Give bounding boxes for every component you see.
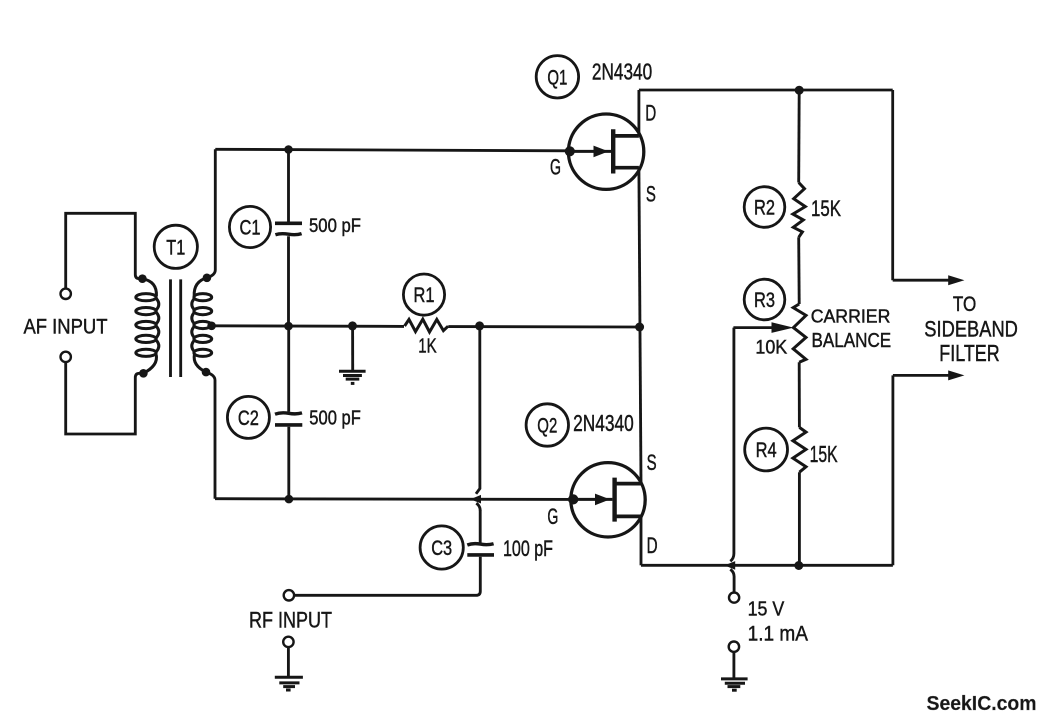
wire gate line top [215, 149, 571, 151]
junction ground tap [348, 321, 357, 330]
junction bottom rail R4 [794, 561, 803, 570]
svg-text:R3: R3 [754, 289, 775, 312]
svg-text:BALANCE: BALANCE [812, 329, 892, 352]
svg-text:R2: R2 [754, 197, 775, 220]
junction primary top [138, 274, 147, 283]
terminal AF input top [60, 289, 70, 299]
wire Q2 drain down [640, 516, 643, 565]
svg-text:R4: R4 [756, 439, 777, 462]
arrow at bottom rail junction [725, 561, 736, 570]
arrow output lower [948, 370, 964, 380]
resistor label R1 [403, 274, 444, 315]
svg-text:15 V: 15 V [748, 598, 785, 621]
terminal supply ground [729, 642, 739, 652]
ground RF input [275, 677, 303, 690]
terminal 15V [729, 593, 739, 603]
svg-text:D: D [647, 533, 658, 558]
junction secondary bottom [202, 368, 211, 377]
resistor R4 [793, 427, 806, 472]
arrow at lower rail junction [470, 495, 481, 504]
wire secondary top to gate line [207, 149, 215, 277]
wire ground stub [351, 326, 354, 371]
svg-text:SIDEBAND: SIDEBAND [924, 317, 1018, 342]
svg-text:CARRIER: CARRIER [811, 307, 891, 327]
svg-text:500 pF: 500 pF [309, 408, 361, 430]
svg-text:SeekIC.com: SeekIC.com [927, 693, 1037, 715]
wire AF input upper loop [66, 213, 143, 288]
svg-text:TO: TO [953, 293, 976, 316]
svg-text:Q2: Q2 [537, 415, 557, 438]
resistor R2 [793, 183, 805, 238]
capacitor label C3 [420, 526, 463, 569]
svg-text:R1: R1 [414, 284, 435, 307]
wire R4 bottom [798, 472, 801, 565]
junction S node [635, 323, 644, 332]
svg-text:C2: C2 [238, 407, 259, 430]
junction top rail R2 [795, 86, 804, 95]
svg-text:100 pF: 100 pF [503, 536, 553, 561]
wire right bracket upper [893, 90, 950, 280]
svg-text:G: G [547, 504, 558, 529]
wire Q1 drain up [637, 90, 640, 136]
resistor R1 [405, 319, 449, 332]
transistor Q2 [568, 463, 645, 537]
transformer T1 secondary winding [192, 278, 212, 372]
svg-text:Q1: Q1 [547, 66, 567, 89]
junction C1 top on gate line [284, 145, 293, 154]
svg-text:G: G [550, 155, 561, 180]
svg-text:1.1 mA: 1.1 mA [748, 622, 809, 646]
svg-text:2N4340: 2N4340 [573, 410, 634, 436]
wire secondary bottom to lower rail [206, 372, 215, 499]
svg-text:T1: T1 [166, 236, 185, 259]
transformer T1 core [171, 279, 181, 377]
wire R3 wiper down to supply [730, 328, 734, 562]
svg-text:C3: C3 [431, 537, 452, 560]
junction C2 bottom on lower rail [285, 495, 294, 504]
svg-text:500 pF: 500 pF [309, 216, 361, 237]
svg-text:10K: 10K [755, 337, 787, 359]
junction secondary center tap [207, 322, 216, 331]
junction primary bottom [139, 369, 148, 378]
ground supply [721, 679, 748, 690]
svg-text:RF INPUT: RF INPUT [249, 608, 332, 633]
svg-text:FILTER: FILTER [939, 340, 999, 366]
svg-text:S: S [646, 182, 656, 207]
wire supply ground stub [732, 653, 735, 679]
resistor label R2 [744, 187, 785, 228]
svg-text:S: S [647, 450, 657, 475]
ground center [339, 371, 366, 383]
terminal RF ground [283, 637, 293, 647]
wire R2 to R3 [797, 237, 800, 304]
terminal AF input bottom [60, 352, 70, 362]
svg-text:C1: C1 [240, 217, 261, 240]
arrow output upper [948, 275, 964, 285]
terminal RF input [284, 590, 294, 600]
svg-text:15K: 15K [811, 196, 841, 221]
capacitor C2 [275, 326, 302, 499]
wire bottom rail [641, 564, 893, 567]
wire lower rail [215, 497, 573, 501]
wire Q1 source to Q2 source [639, 168, 641, 484]
svg-text:2N4340: 2N4340 [592, 58, 652, 84]
transformer T1 primary winding [136, 279, 159, 374]
transistor label Q1 [536, 56, 578, 98]
transformer label T1 [154, 225, 197, 268]
svg-text:1K: 1K [418, 335, 437, 358]
wire right bracket lower [893, 375, 950, 565]
wire AF input lower loop [66, 362, 144, 434]
junction C1 bottom on center line [284, 322, 293, 331]
capacitor C3 [294, 510, 494, 595]
wire top rail [639, 89, 893, 92]
capacitor label C2 [227, 396, 269, 438]
wire RF ground stub [287, 647, 290, 677]
potentiometer label R3 [744, 279, 785, 320]
wire R2 top [797, 90, 800, 183]
junction R1 right [475, 321, 484, 330]
svg-text:D: D [645, 101, 656, 126]
wire R1 right down to lower rail [476, 326, 480, 494]
potentiometer R3 wiper arrow [733, 326, 775, 329]
wire center line [212, 326, 640, 327]
junction secondary top [203, 274, 212, 283]
svg-text:15K: 15K [810, 441, 838, 467]
capacitor C1 [275, 150, 302, 327]
wire supply stub [730, 569, 734, 592]
transistor Q1 [565, 114, 644, 189]
resistor label R4 [745, 428, 788, 471]
svg-text:AF INPUT: AF INPUT [24, 315, 108, 339]
wire R3 to R4 [798, 362, 801, 427]
potentiometer R3 [793, 304, 806, 362]
capacitor label C1 [229, 206, 270, 247]
transistor label Q2 [526, 404, 568, 446]
